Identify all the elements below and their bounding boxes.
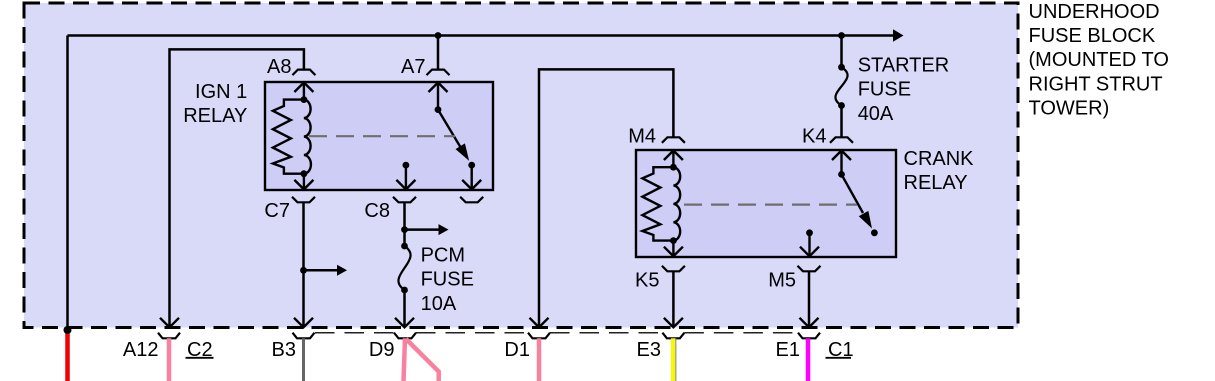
svg-text:PCM: PCM bbox=[421, 245, 465, 267]
svg-text:40A: 40A bbox=[858, 103, 894, 125]
svg-text:IGN 1: IGN 1 bbox=[195, 81, 247, 103]
svg-text:C8: C8 bbox=[364, 200, 390, 222]
svg-text:M4: M4 bbox=[628, 125, 656, 147]
svg-text:TOWER): TOWER) bbox=[1029, 98, 1110, 120]
svg-text:M5: M5 bbox=[768, 269, 796, 291]
svg-text:K5: K5 bbox=[635, 269, 659, 291]
svg-text:A7: A7 bbox=[401, 56, 425, 78]
svg-text:B3: B3 bbox=[272, 339, 296, 361]
svg-text:RELAY: RELAY bbox=[183, 105, 247, 127]
svg-text:D1: D1 bbox=[504, 339, 530, 361]
svg-text:RIGHT STRUT: RIGHT STRUT bbox=[1029, 73, 1163, 95]
svg-text:FUSE: FUSE bbox=[858, 79, 911, 101]
svg-text:K4: K4 bbox=[802, 125, 826, 147]
svg-text:FUSE BLOCK: FUSE BLOCK bbox=[1029, 25, 1156, 47]
svg-text:E3: E3 bbox=[637, 339, 661, 361]
svg-text:(MOUNTED TO: (MOUNTED TO bbox=[1029, 49, 1169, 71]
svg-text:E1: E1 bbox=[776, 339, 800, 361]
svg-text:10A: 10A bbox=[421, 293, 457, 315]
svg-text:C7: C7 bbox=[264, 200, 290, 222]
svg-text:RELAY: RELAY bbox=[904, 172, 968, 194]
svg-text:A8: A8 bbox=[267, 56, 291, 78]
svg-text:UNDERHOOD: UNDERHOOD bbox=[1029, 1, 1160, 23]
svg-text:D9: D9 bbox=[369, 339, 395, 361]
svg-text:CRANK: CRANK bbox=[904, 148, 975, 170]
svg-text:FUSE: FUSE bbox=[421, 269, 474, 291]
svg-text:STARTER: STARTER bbox=[858, 54, 950, 76]
svg-text:A12: A12 bbox=[123, 339, 159, 361]
